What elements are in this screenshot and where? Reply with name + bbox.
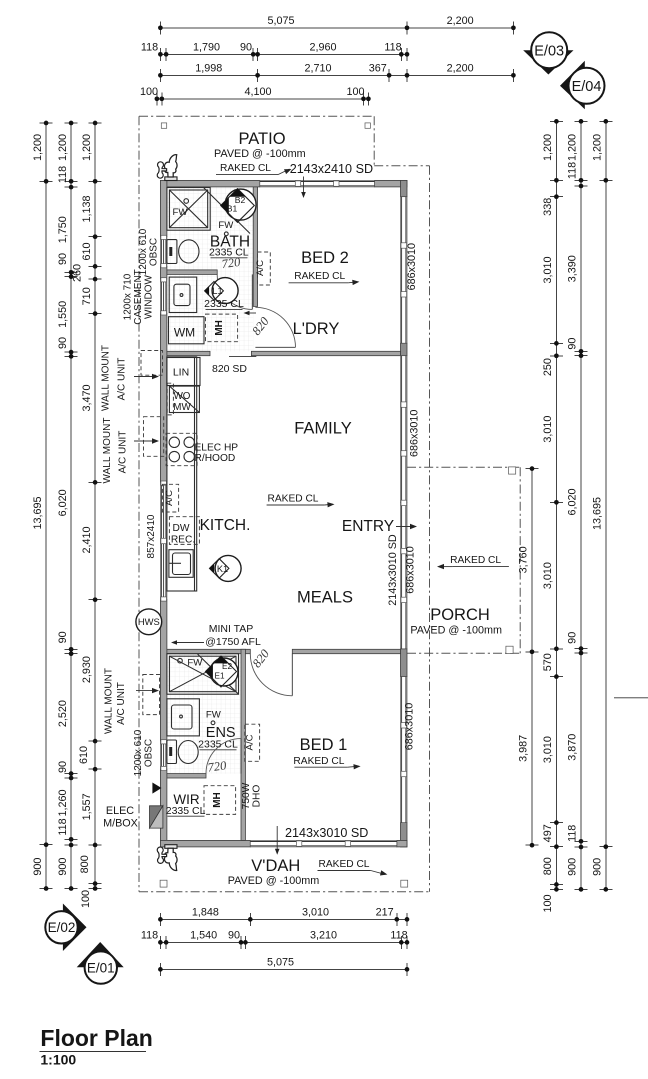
svg-text:2,200: 2,200: [447, 15, 474, 27]
kitchen linen cupboard LIN: [167, 358, 200, 386]
fan/light symbol B1/B2 bath: [221, 189, 256, 223]
patio eave outline right: [373, 116, 375, 166]
svg-text:1,790: 1,790: [193, 41, 220, 53]
svg-text:118: 118: [567, 162, 579, 179]
A/C unit dashed box 3: [143, 675, 160, 715]
garden tap symbol bottom: [157, 845, 177, 871]
svg-text:@1750 AFL: @1750 AFL: [205, 636, 261, 648]
svg-text:720: 720: [221, 255, 242, 272]
laundry MH dashed box: [206, 314, 238, 342]
svg-text:RAKED CL: RAKED CL: [294, 271, 345, 282]
verandah eave outline bottom: [139, 891, 430, 893]
bath shower screen diagonal: [203, 187, 250, 234]
svg-text:100: 100: [80, 890, 92, 908]
svg-text:90: 90: [57, 761, 69, 773]
svg-text:90: 90: [228, 929, 240, 941]
svg-text:118: 118: [390, 929, 407, 941]
svg-text:900: 900: [32, 858, 44, 876]
fan/light symbol K1 kitchen: [210, 555, 242, 581]
dimension chain right middle chain: [580, 121, 582, 889]
bath and laundry tiled floor: [167, 187, 253, 351]
svg-text:BED 2: BED 2: [301, 249, 349, 267]
svg-text:3,390: 3,390: [567, 255, 579, 282]
svg-text:1200x 610: 1200x 610: [133, 729, 144, 776]
bed1 door swing 820: [250, 654, 292, 696]
svg-text:1,550: 1,550: [57, 301, 69, 328]
svg-text:Floor Plan: Floor Plan: [40, 1025, 152, 1051]
A/C unit dashed box 2: [144, 417, 164, 457]
eave outline step to right: [374, 165, 429, 167]
svg-text:A/C: A/C: [255, 260, 266, 276]
svg-text:1,200: 1,200: [567, 134, 579, 161]
verandah post left: [160, 880, 167, 887]
svg-text:250: 250: [542, 358, 554, 376]
svg-text:RAKED CL: RAKED CL: [293, 756, 344, 767]
HWS hot water system: [136, 609, 162, 635]
exterior left wall lower-mid: [160, 600, 167, 741]
svg-text:1,200: 1,200: [81, 134, 93, 161]
dimension chain bottom row 118/1,540/90/3,210/118: [160, 941, 407, 943]
svg-text:OBSC: OBSC: [148, 238, 159, 266]
exterior bottom wall left segment: [160, 840, 250, 847]
window bed2 686x3010: [401, 197, 408, 344]
svg-text:E/02: E/02: [48, 920, 76, 935]
svg-text:686x3010: 686x3010: [406, 243, 418, 290]
svg-text:LIN: LIN: [173, 367, 189, 379]
svg-text:DW: DW: [173, 523, 190, 534]
ens toilet: [167, 740, 198, 764]
interior wall meals south left: [167, 649, 250, 653]
svg-text:1,200: 1,200: [32, 134, 44, 161]
label entry arrow: [396, 526, 413, 528]
window family 686x3010: [401, 356, 408, 503]
svg-text:1:100: 1:100: [40, 1052, 76, 1068]
svg-text:2,520: 2,520: [57, 700, 69, 727]
svg-text:FW: FW: [173, 207, 189, 218]
svg-text:2143x3010 SD: 2143x3010 SD: [285, 826, 368, 840]
svg-text:1,200: 1,200: [592, 134, 604, 161]
svg-text:WINDOW: WINDOW: [144, 275, 155, 319]
svg-text:V'DAH: V'DAH: [251, 857, 300, 875]
bath shower tray: [167, 188, 210, 231]
svg-text:338: 338: [542, 198, 554, 216]
mini tap arrow: [174, 642, 204, 644]
svg-text:3,010: 3,010: [302, 906, 329, 918]
A/C unit dashed box bed2: [255, 252, 270, 285]
svg-text:KITCH.: KITCH.: [200, 517, 251, 534]
svg-text:RAKED CL: RAKED CL: [220, 163, 271, 174]
elevation marker E/04: [560, 61, 605, 110]
sliding door entry 2143x3010 SD: [401, 500, 408, 649]
svg-text:100: 100: [346, 86, 364, 98]
svg-text:3,760: 3,760: [517, 546, 529, 573]
dimension chain bottom row 1,848/3,010/217: [160, 918, 407, 920]
svg-text:WALL MOUNT: WALL MOUNT: [104, 668, 115, 734]
svg-text:3,010: 3,010: [542, 736, 554, 763]
svg-text:3,010: 3,010: [542, 562, 554, 589]
exterior bottom wall right segment: [397, 840, 407, 847]
svg-text:5,075: 5,075: [267, 956, 294, 968]
svg-text:750W: 750W: [241, 782, 252, 809]
svg-text:1,750: 1,750: [57, 216, 69, 243]
svg-text:E/03: E/03: [534, 43, 564, 59]
svg-text:L1: L1: [212, 286, 222, 296]
bath toilet: [167, 240, 199, 264]
svg-text:686x3010: 686x3010: [403, 703, 415, 750]
window ens 1200x610 OBSC: [160, 740, 167, 771]
svg-text:2,200: 2,200: [447, 62, 474, 74]
leader arrow patio door: [303, 177, 305, 196]
svg-text:WALL MOUNT: WALL MOUNT: [101, 345, 112, 411]
porch slab outline right: [519, 467, 521, 653]
svg-text:6,020: 6,020: [57, 489, 69, 516]
svg-text:2335 CL: 2335 CL: [166, 805, 206, 817]
svg-text:2,930: 2,930: [81, 656, 93, 683]
svg-text:M/BOX: M/BOX: [103, 818, 138, 830]
svg-text:720: 720: [207, 758, 228, 775]
svg-text:R/HOOD: R/HOOD: [195, 453, 236, 464]
svg-text:MW: MW: [173, 402, 191, 413]
svg-text:610: 610: [81, 242, 93, 260]
elevation marker E/02: [45, 904, 86, 952]
svg-text:367: 367: [369, 62, 387, 74]
title underline: [40, 1051, 147, 1053]
bath vanity: [169, 277, 197, 312]
svg-text:RAKED CL: RAKED CL: [268, 494, 319, 505]
verandah post right: [401, 880, 408, 887]
fan/light symbol E1/E2 ens: [206, 656, 239, 687]
svg-text:MINI TAP: MINI TAP: [209, 623, 254, 635]
interior wall meals south right: [292, 649, 400, 653]
sliding door verandah 2143x3010 SD: [250, 840, 396, 847]
svg-text:ENTRY: ENTRY: [342, 518, 394, 535]
dimension chain left middle chain: [70, 123, 72, 889]
interior wall bath-laundry divider: [167, 270, 217, 275]
svg-text:1,557: 1,557: [81, 793, 93, 820]
svg-text:100: 100: [542, 894, 554, 912]
svg-text:FW: FW: [218, 220, 234, 231]
svg-text:E/01: E/01: [87, 961, 115, 976]
svg-text:A/C UNIT: A/C UNIT: [117, 358, 128, 401]
eave outline right vertical: [429, 166, 431, 892]
adjacent drawing edge line: [614, 697, 648, 699]
patio post left: [161, 123, 166, 128]
svg-text:1200x 710: 1200x 710: [122, 273, 133, 320]
svg-text:90: 90: [57, 337, 69, 349]
dimension chain top row 100/4,100/100: [157, 98, 369, 100]
svg-text:E2: E2: [222, 662, 232, 671]
svg-text:2,410: 2,410: [81, 526, 93, 553]
A/C arrow 2: [134, 440, 155, 442]
exterior right wall entry-bed1 segment: [401, 649, 408, 677]
interior wall ens-wir divider: [167, 774, 206, 778]
svg-text:820 SD: 820 SD: [212, 363, 247, 375]
svg-text:2143x2410 SD: 2143x2410 SD: [290, 162, 373, 176]
window bath 1200x610 OBSC: [160, 235, 167, 268]
svg-text:MH: MH: [212, 792, 223, 808]
svg-text:3,987: 3,987: [517, 735, 529, 762]
kitchen A/C dashed box: [162, 484, 178, 512]
patio post right: [365, 123, 370, 128]
exterior left wall bottom: [160, 769, 167, 847]
porch slab outline top: [407, 466, 520, 468]
fan/light symbol L1 bath: [205, 278, 239, 304]
svg-text:CASEMENT: CASEMENT: [133, 269, 144, 325]
svg-text:A/C: A/C: [245, 734, 256, 750]
svg-text:1,260: 1,260: [57, 789, 69, 816]
svg-text:710: 710: [81, 287, 93, 305]
svg-text:90: 90: [567, 338, 579, 350]
svg-text:E1: E1: [214, 672, 224, 681]
svg-text:PAVED @ -100mm: PAVED @ -100mm: [214, 148, 306, 160]
bath door swing 720: [217, 274, 252, 309]
laundry door swing 820: [255, 307, 295, 347]
interior wall family north right: [251, 351, 400, 355]
svg-text:ELEC HP: ELEC HP: [195, 443, 239, 454]
cavity slider laundry 820 SD: [229, 356, 256, 358]
dimension chain right outer chain: [605, 121, 607, 889]
laundry door arrow: [247, 312, 257, 314]
A/C indoor unit dashed kitchen wall: [167, 383, 173, 415]
patio-verandah eave outline left: [138, 116, 140, 892]
kitchen bench outline: [167, 357, 197, 591]
svg-text:118: 118: [567, 825, 579, 842]
svg-text:BED 1: BED 1: [300, 736, 348, 754]
dimension chain top row 118/1,790/90/2,960/118: [160, 53, 407, 55]
exterior right wall corner top: [401, 180, 408, 196]
svg-text:REC.: REC.: [171, 535, 195, 546]
svg-text:1,200: 1,200: [57, 134, 69, 161]
kitchen DW REC dashed: [169, 517, 199, 546]
elec meter box: [150, 806, 163, 828]
porch slab outline bottom: [407, 652, 520, 654]
svg-text:3,470: 3,470: [81, 384, 93, 411]
exterior wall top-right segment: [375, 180, 408, 187]
svg-text:100: 100: [140, 86, 158, 98]
svg-text:900: 900: [567, 858, 579, 876]
laundry WM box: [169, 317, 205, 344]
dimension chain right inner chain: [555, 121, 557, 889]
interior wall family north left: [167, 351, 210, 355]
svg-text:MH: MH: [214, 320, 225, 336]
svg-text:HWS: HWS: [138, 616, 160, 627]
window bed1 686x3010: [401, 677, 408, 823]
svg-text:ELEC: ELEC: [106, 805, 134, 817]
ens shower screen diagonal: [198, 654, 239, 694]
dimension chain top row 1,998/2,710/367/2,200: [160, 74, 513, 76]
svg-text:MEALS: MEALS: [297, 589, 353, 607]
ens floor waste: [211, 721, 215, 725]
svg-text:610: 610: [78, 746, 90, 764]
exterior left wall upper: [160, 180, 167, 236]
garden tap symbol top: [157, 155, 177, 181]
A/C unit dashed box 1: [141, 351, 163, 376]
window bath 1200x710 casement: [160, 278, 167, 315]
svg-text:570: 570: [542, 653, 554, 671]
svg-text:PAVED @ -100mm: PAVED @ -100mm: [228, 875, 320, 887]
ens vanity: [167, 699, 200, 736]
svg-text:WO: WO: [174, 391, 191, 402]
exterior wall top-left segment: [160, 180, 259, 187]
svg-text:497: 497: [542, 824, 554, 842]
dimension chain left outer chain: [45, 123, 47, 889]
svg-text:5,075: 5,075: [267, 15, 294, 27]
svg-text:FW: FW: [187, 657, 203, 668]
svg-text:686x3010: 686x3010: [409, 410, 421, 457]
svg-text:L'DRY: L'DRY: [293, 320, 340, 338]
svg-text:90: 90: [240, 41, 252, 53]
svg-text:A/C UNIT: A/C UNIT: [117, 431, 128, 474]
svg-text:PATIO: PATIO: [238, 130, 285, 148]
svg-text:A/C: A/C: [164, 490, 175, 506]
exterior left wall between windows: [160, 266, 167, 279]
svg-text:2335 CL: 2335 CL: [204, 298, 244, 310]
svg-text:A/C UNIT: A/C UNIT: [116, 682, 127, 725]
svg-text:1,848: 1,848: [192, 906, 219, 918]
svg-text:118: 118: [141, 41, 158, 53]
dimension chain right porch chain 3,760/3,987: [531, 469, 533, 846]
svg-text:13,695: 13,695: [32, 496, 44, 529]
dimension chain top row overall 5,075 / 2,200: [160, 27, 513, 29]
svg-text:WM: WM: [174, 326, 195, 340]
dimension chain left inner chain: [94, 123, 96, 889]
porch corner marker top: [509, 467, 516, 474]
exterior right wall junction mid: [401, 343, 408, 356]
svg-text:118: 118: [57, 818, 69, 835]
leader arrow verandah door: [276, 826, 278, 852]
svg-text:3,010: 3,010: [542, 416, 554, 443]
elevation marker E/01: [77, 942, 124, 984]
svg-text:857x2410: 857x2410: [146, 514, 157, 558]
svg-text:900: 900: [57, 858, 69, 876]
svg-text:4,100: 4,100: [244, 86, 271, 98]
svg-text:B1: B1: [227, 204, 238, 214]
kitchen sink: [169, 550, 193, 578]
svg-text:2143x3010 SD: 2143x3010 SD: [387, 534, 399, 606]
bath floor waste: [224, 232, 228, 236]
svg-text:WALL MOUNT: WALL MOUNT: [102, 418, 113, 484]
porch corner marker bottom: [506, 646, 513, 653]
patio eave outline top: [139, 115, 374, 117]
sliding door patio 2143x2410 SD: [260, 180, 375, 187]
ens A/C dashed box: [245, 724, 260, 761]
svg-text:1,998: 1,998: [195, 62, 222, 74]
svg-text:3,210: 3,210: [310, 929, 337, 941]
svg-text:RAKED CL: RAKED CL: [319, 859, 370, 870]
svg-text:FAMILY: FAMILY: [294, 420, 351, 438]
svg-text:2335 CL: 2335 CL: [198, 739, 238, 751]
kitchen wall oven microwave WO MW: [169, 386, 199, 413]
window kitchen 857x2410: [160, 481, 167, 601]
svg-text:3,870: 3,870: [567, 734, 579, 761]
kitchen cooktop: [166, 433, 197, 465]
svg-text:118: 118: [57, 166, 69, 183]
dimension chain bottom row 5,075: [160, 968, 407, 970]
ens shower tray: [167, 654, 239, 695]
interior wall bed1 west: [241, 649, 245, 840]
svg-text:217: 217: [376, 906, 394, 918]
svg-text:1,540: 1,540: [190, 929, 217, 941]
svg-text:2,960: 2,960: [309, 41, 336, 53]
svg-text:K1: K1: [217, 564, 228, 574]
ens door swing 720: [206, 739, 241, 774]
svg-text:6,020: 6,020: [567, 488, 579, 515]
svg-text:686x3010: 686x3010: [404, 546, 416, 593]
svg-text:1200x 610: 1200x 610: [138, 228, 149, 275]
svg-text:13,695: 13,695: [592, 497, 604, 530]
svg-text:PORCH: PORCH: [430, 606, 490, 624]
svg-text:1,200: 1,200: [542, 134, 554, 161]
svg-text:118: 118: [141, 929, 158, 941]
svg-text:260: 260: [72, 264, 84, 282]
bath shower rose: [184, 199, 189, 204]
svg-text:800: 800: [542, 857, 554, 875]
svg-text:E/04: E/04: [572, 79, 602, 95]
exterior left wall mid: [160, 314, 167, 483]
svg-text:FW: FW: [206, 710, 222, 721]
A/C arrow 1: [134, 376, 155, 378]
svg-text:RAKED CL: RAKED CL: [450, 555, 501, 566]
svg-text:118: 118: [384, 41, 401, 53]
svg-text:3,010: 3,010: [542, 256, 554, 283]
svg-text:90: 90: [567, 632, 579, 644]
wir MH dashed box: [204, 786, 236, 815]
svg-text:900: 900: [592, 858, 604, 876]
svg-text:PAVED @ -100mm: PAVED @ -100mm: [410, 625, 502, 637]
ens shower rose: [178, 658, 183, 663]
svg-text:800: 800: [79, 855, 91, 873]
elec meter box arrow marker: [152, 783, 161, 794]
svg-text:OBSC: OBSC: [144, 739, 155, 767]
interior wall bath east: [253, 187, 257, 307]
svg-text:90: 90: [57, 631, 69, 643]
svg-text:1,138: 1,138: [81, 195, 93, 222]
elevation marker E/03: [523, 32, 573, 74]
svg-text:DHO: DHO: [252, 785, 263, 808]
svg-text:2,710: 2,710: [304, 62, 331, 74]
exterior right wall bottom corner: [401, 823, 408, 847]
A/C arrow 3: [136, 690, 155, 692]
svg-text:90: 90: [57, 253, 69, 265]
ensuite tiled floor: [167, 654, 241, 774]
